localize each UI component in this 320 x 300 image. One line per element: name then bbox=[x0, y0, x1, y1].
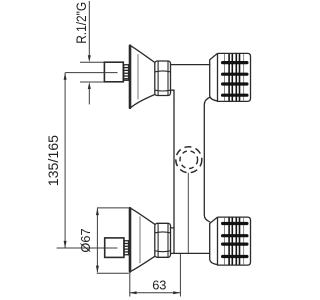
svg-text:63: 63 bbox=[152, 277, 166, 292]
svg-text:135/165: 135/165 bbox=[46, 135, 62, 186]
svg-text:R.1/2"G: R.1/2"G bbox=[73, 2, 89, 44]
svg-text:Ø67: Ø67 bbox=[78, 228, 93, 252]
